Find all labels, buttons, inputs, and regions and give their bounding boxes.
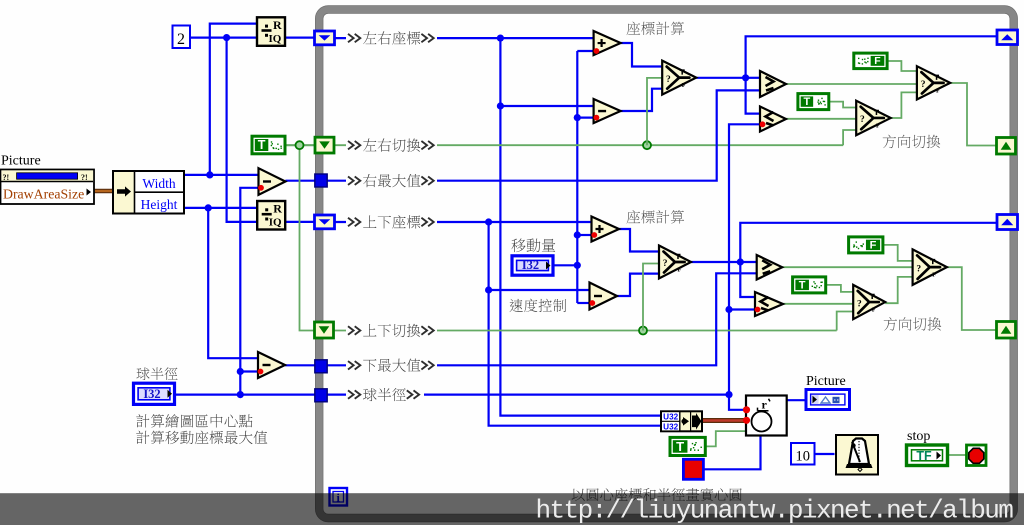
T boolean constant 2 xyxy=(793,277,826,293)
wire: move amount I32 to vertical distribution xyxy=(553,264,577,266)
wire: green riser trunk2 to selectB2 bottom xyxy=(837,312,854,331)
left shift register tunnel Y xyxy=(315,215,335,229)
less-equal node 2 xyxy=(755,292,783,316)
wire: subtract-mv2 out to select2 bottom xyxy=(617,274,659,296)
selectB node 1 xyxy=(856,101,891,136)
svg-text:http://liuyunantw.pixnet.net/a: http://liuyunantw.pixnet.net/album xyxy=(536,496,1014,525)
label Y coordinate row xyxy=(346,214,437,230)
select node 1 xyxy=(662,61,696,95)
svg-text:F: F xyxy=(874,55,881,67)
wire: draw circle out to Picture indicator xyxy=(787,399,806,401)
selectA node 1 xyxy=(917,66,950,99)
wire: subtract1 out to right-max tunnel xyxy=(285,180,315,182)
wire: bundle cluster to draw circle (brown) xyxy=(702,418,746,423)
bundle node U32 x2 xyxy=(661,411,702,431)
wire: UD toggle green trunk xyxy=(334,330,837,332)
wire: X position row to add1 xyxy=(335,37,595,39)
svg-text:F: F xyxy=(936,87,940,94)
red color box constant xyxy=(683,459,703,479)
loop condition terminal xyxy=(967,445,987,466)
boolean constant T for fill xyxy=(670,437,705,455)
svg-text:Width: Width xyxy=(142,176,175,191)
wire: selectB2 out to selectA2 bottom xyxy=(885,277,912,303)
svg-text:Picture: Picture xyxy=(806,374,846,389)
wire: green riser to select1 s-input xyxy=(647,78,662,145)
greater-equal node 2 xyxy=(757,255,783,280)
wire: subtract-mv1 out to select1 bottom xyxy=(621,89,663,111)
label coordinate calc 1 xyxy=(627,22,685,35)
wire: boolean T to draw circle xyxy=(705,431,746,446)
right shift register tunnel X xyxy=(997,30,1018,45)
svg-text:?: ? xyxy=(666,75,671,85)
svg-text:stop: stop xyxy=(907,429,930,444)
svg-text:U32: U32 xyxy=(663,423,678,432)
svg-text:?!: ?! xyxy=(81,173,88,182)
right toggle shift register LR xyxy=(997,138,1016,155)
wire: Y position down to subtract-mv2 and bundle xyxy=(489,222,661,426)
quotient remainder node 1 xyxy=(257,17,285,46)
wire: select2 out to SR, greater2, less2 xyxy=(691,261,740,263)
svg-text:?!: ?! xyxy=(3,173,10,182)
while loop border xyxy=(319,10,1014,519)
svg-text:T: T xyxy=(258,138,266,152)
selectB node 2 xyxy=(853,285,885,319)
svg-text:F: F xyxy=(932,272,936,279)
wire: quotient1 out to left shift register X xyxy=(285,36,315,38)
select node 2 xyxy=(659,246,691,279)
wire: T2 const to selectB2 top xyxy=(826,285,854,292)
label coordinate calc 2 xyxy=(627,210,685,223)
wire: 10 to wait ms xyxy=(815,453,835,455)
left toggle shift register LR xyxy=(315,137,334,153)
wire: 2-constant to quotient nodes xyxy=(190,36,257,38)
svg-text:?: ? xyxy=(857,299,862,309)
unbundle node Width/Height xyxy=(113,171,184,214)
wire: green riser to select2 s-input xyxy=(643,264,659,331)
add node 1 xyxy=(594,31,621,55)
svg-text:IQ: IQ xyxy=(269,217,282,229)
svg-text:F: F xyxy=(872,307,876,314)
svg-text:T: T xyxy=(799,279,806,291)
Picture indicator terminal xyxy=(806,390,850,410)
wire: brown cluster from property node to unbundle xyxy=(94,189,114,194)
label UD toggle row xyxy=(346,323,437,339)
wire: add1 out to select1 top xyxy=(621,43,663,67)
T boolean constant 1 xyxy=(798,94,829,110)
wire: subtract3 out to bottom-max tunnel xyxy=(285,364,315,366)
label direction switch 1 xyxy=(883,135,941,149)
wire: selectB out to selectA bottom xyxy=(891,92,917,118)
left toggle shift register UD xyxy=(315,322,334,338)
tunnel bottom max xyxy=(315,360,327,373)
label direction switch 2 xyxy=(884,317,942,331)
stop boolean terminal xyxy=(907,445,948,466)
F boolean constant 2 xyxy=(849,237,883,253)
wire: selectA out to right toggle tunnel xyxy=(950,83,996,146)
svg-text:T: T xyxy=(804,96,811,108)
wire: ball radius row to less1/less2 lower inputs and circle radius xyxy=(327,394,729,396)
svg-text:?: ? xyxy=(921,80,926,90)
svg-text:F: F xyxy=(876,122,880,129)
wire: Width to quotient1 and subtract1 xyxy=(184,174,259,176)
svg-text:I32: I32 xyxy=(522,258,539,272)
svg-text:?: ? xyxy=(916,264,921,274)
wire: greater1 out to selectA middle xyxy=(786,83,917,85)
svg-text:TF: TF xyxy=(916,449,932,463)
wire: T const to selectB top xyxy=(829,102,856,108)
wire: quotient2 out to left shift register Y xyxy=(285,221,314,223)
svg-text:Picture: Picture xyxy=(1,154,41,169)
wire: Height to quotient2 and subtract3 xyxy=(184,207,257,209)
wire: add2 out to select2 top xyxy=(619,229,659,252)
subtract3 Height minus radius xyxy=(258,352,285,378)
wire: greater2 out to selectA2 middle xyxy=(782,266,912,268)
move amount I32 control xyxy=(512,256,553,275)
label ball radius xyxy=(136,367,177,380)
constant 10 xyxy=(791,443,815,465)
svg-text:I32: I32 xyxy=(143,387,160,401)
subtract-mv node 2 xyxy=(590,283,618,310)
wire: ball radius control to tunnel and subtract inputs xyxy=(175,394,315,396)
add node 2 xyxy=(592,217,620,242)
wire: selectA2 out to right toggle tunnel2 xyxy=(947,267,997,330)
label ball radius row xyxy=(346,387,424,403)
label move amount xyxy=(511,238,555,252)
wire: boolean constant to LR-toggle tunnel and down to UD-toggle tunnel xyxy=(285,144,315,146)
label compute center note xyxy=(136,414,252,427)
wire: less1 out to selectB middle xyxy=(786,118,856,120)
right toggle shift register UD xyxy=(997,322,1016,339)
label speed control xyxy=(510,299,567,312)
svg-text:?: ? xyxy=(860,115,865,125)
label X coordinate row xyxy=(346,30,437,46)
wire: LR toggle green trunk xyxy=(334,144,843,146)
wire: F const to selectA top xyxy=(887,61,917,71)
constant 2 xyxy=(173,26,191,49)
wire: stop terminal to loop condition xyxy=(948,454,967,456)
svg-text:F: F xyxy=(870,239,877,251)
svg-text:R: R xyxy=(273,202,282,216)
caption draw solid circle note xyxy=(572,488,742,501)
label compute max note xyxy=(136,431,267,445)
svg-text:T: T xyxy=(676,439,684,454)
label bottom max row xyxy=(346,357,437,373)
iteration terminal i xyxy=(330,488,348,506)
svg-text:F: F xyxy=(678,267,682,274)
F boolean constant 1 xyxy=(854,53,887,69)
label right max row xyxy=(346,173,437,189)
svg-text:10: 10 xyxy=(795,449,810,465)
watermark bar xyxy=(0,493,1024,525)
svg-text:?: ? xyxy=(663,259,668,269)
svg-text:DrawAreaSize: DrawAreaSize xyxy=(3,187,84,202)
greater-equal node 1 xyxy=(760,71,786,97)
tunnel ball radius xyxy=(315,389,327,402)
wire: green riser trunk to selectB bottom xyxy=(843,130,856,145)
right shift register tunnel Y xyxy=(997,215,1018,230)
subtract-mv node 1 xyxy=(594,99,621,123)
wire: right-max row up to greater1 lower input xyxy=(327,90,760,180)
svg-text:IQ: IQ xyxy=(269,33,282,45)
svg-text:F: F xyxy=(682,82,686,89)
wait ms metronome VI xyxy=(836,435,878,475)
wire: X position down to subtract-mv1 and bundle xyxy=(500,38,661,416)
quotient remainder node 2 xyxy=(257,201,285,230)
left shift register tunnel X xyxy=(315,31,335,45)
draw circle VI xyxy=(746,396,787,436)
wire: F2 const to selectA2 top xyxy=(883,245,913,261)
subtract1 Width minus radius xyxy=(259,168,286,195)
wire: bottom-max row up to greater2 lower input xyxy=(327,273,757,365)
svg-text:R: R xyxy=(273,18,282,32)
property node DrawAreaSize xyxy=(1,170,95,205)
boolean constant T for toggle init xyxy=(252,136,285,154)
less-equal node 1 xyxy=(760,107,786,132)
svg-text:2: 2 xyxy=(177,31,185,48)
wire: Y position row to add2 xyxy=(335,221,592,223)
label LR toggle row xyxy=(346,137,437,153)
selectA node 2 xyxy=(913,249,947,285)
wire: select1 out to SR, greater1, less1 xyxy=(696,77,745,79)
svg-text:Height: Height xyxy=(141,197,178,212)
tunnel right max xyxy=(315,174,327,187)
svg-text:r: r xyxy=(762,398,768,412)
wire: less2 out to selectB2 middle xyxy=(783,303,853,305)
ball radius I32 control xyxy=(134,383,175,404)
svg-text:U32: U32 xyxy=(663,413,678,422)
wire: color box to draw circle xyxy=(703,436,760,470)
